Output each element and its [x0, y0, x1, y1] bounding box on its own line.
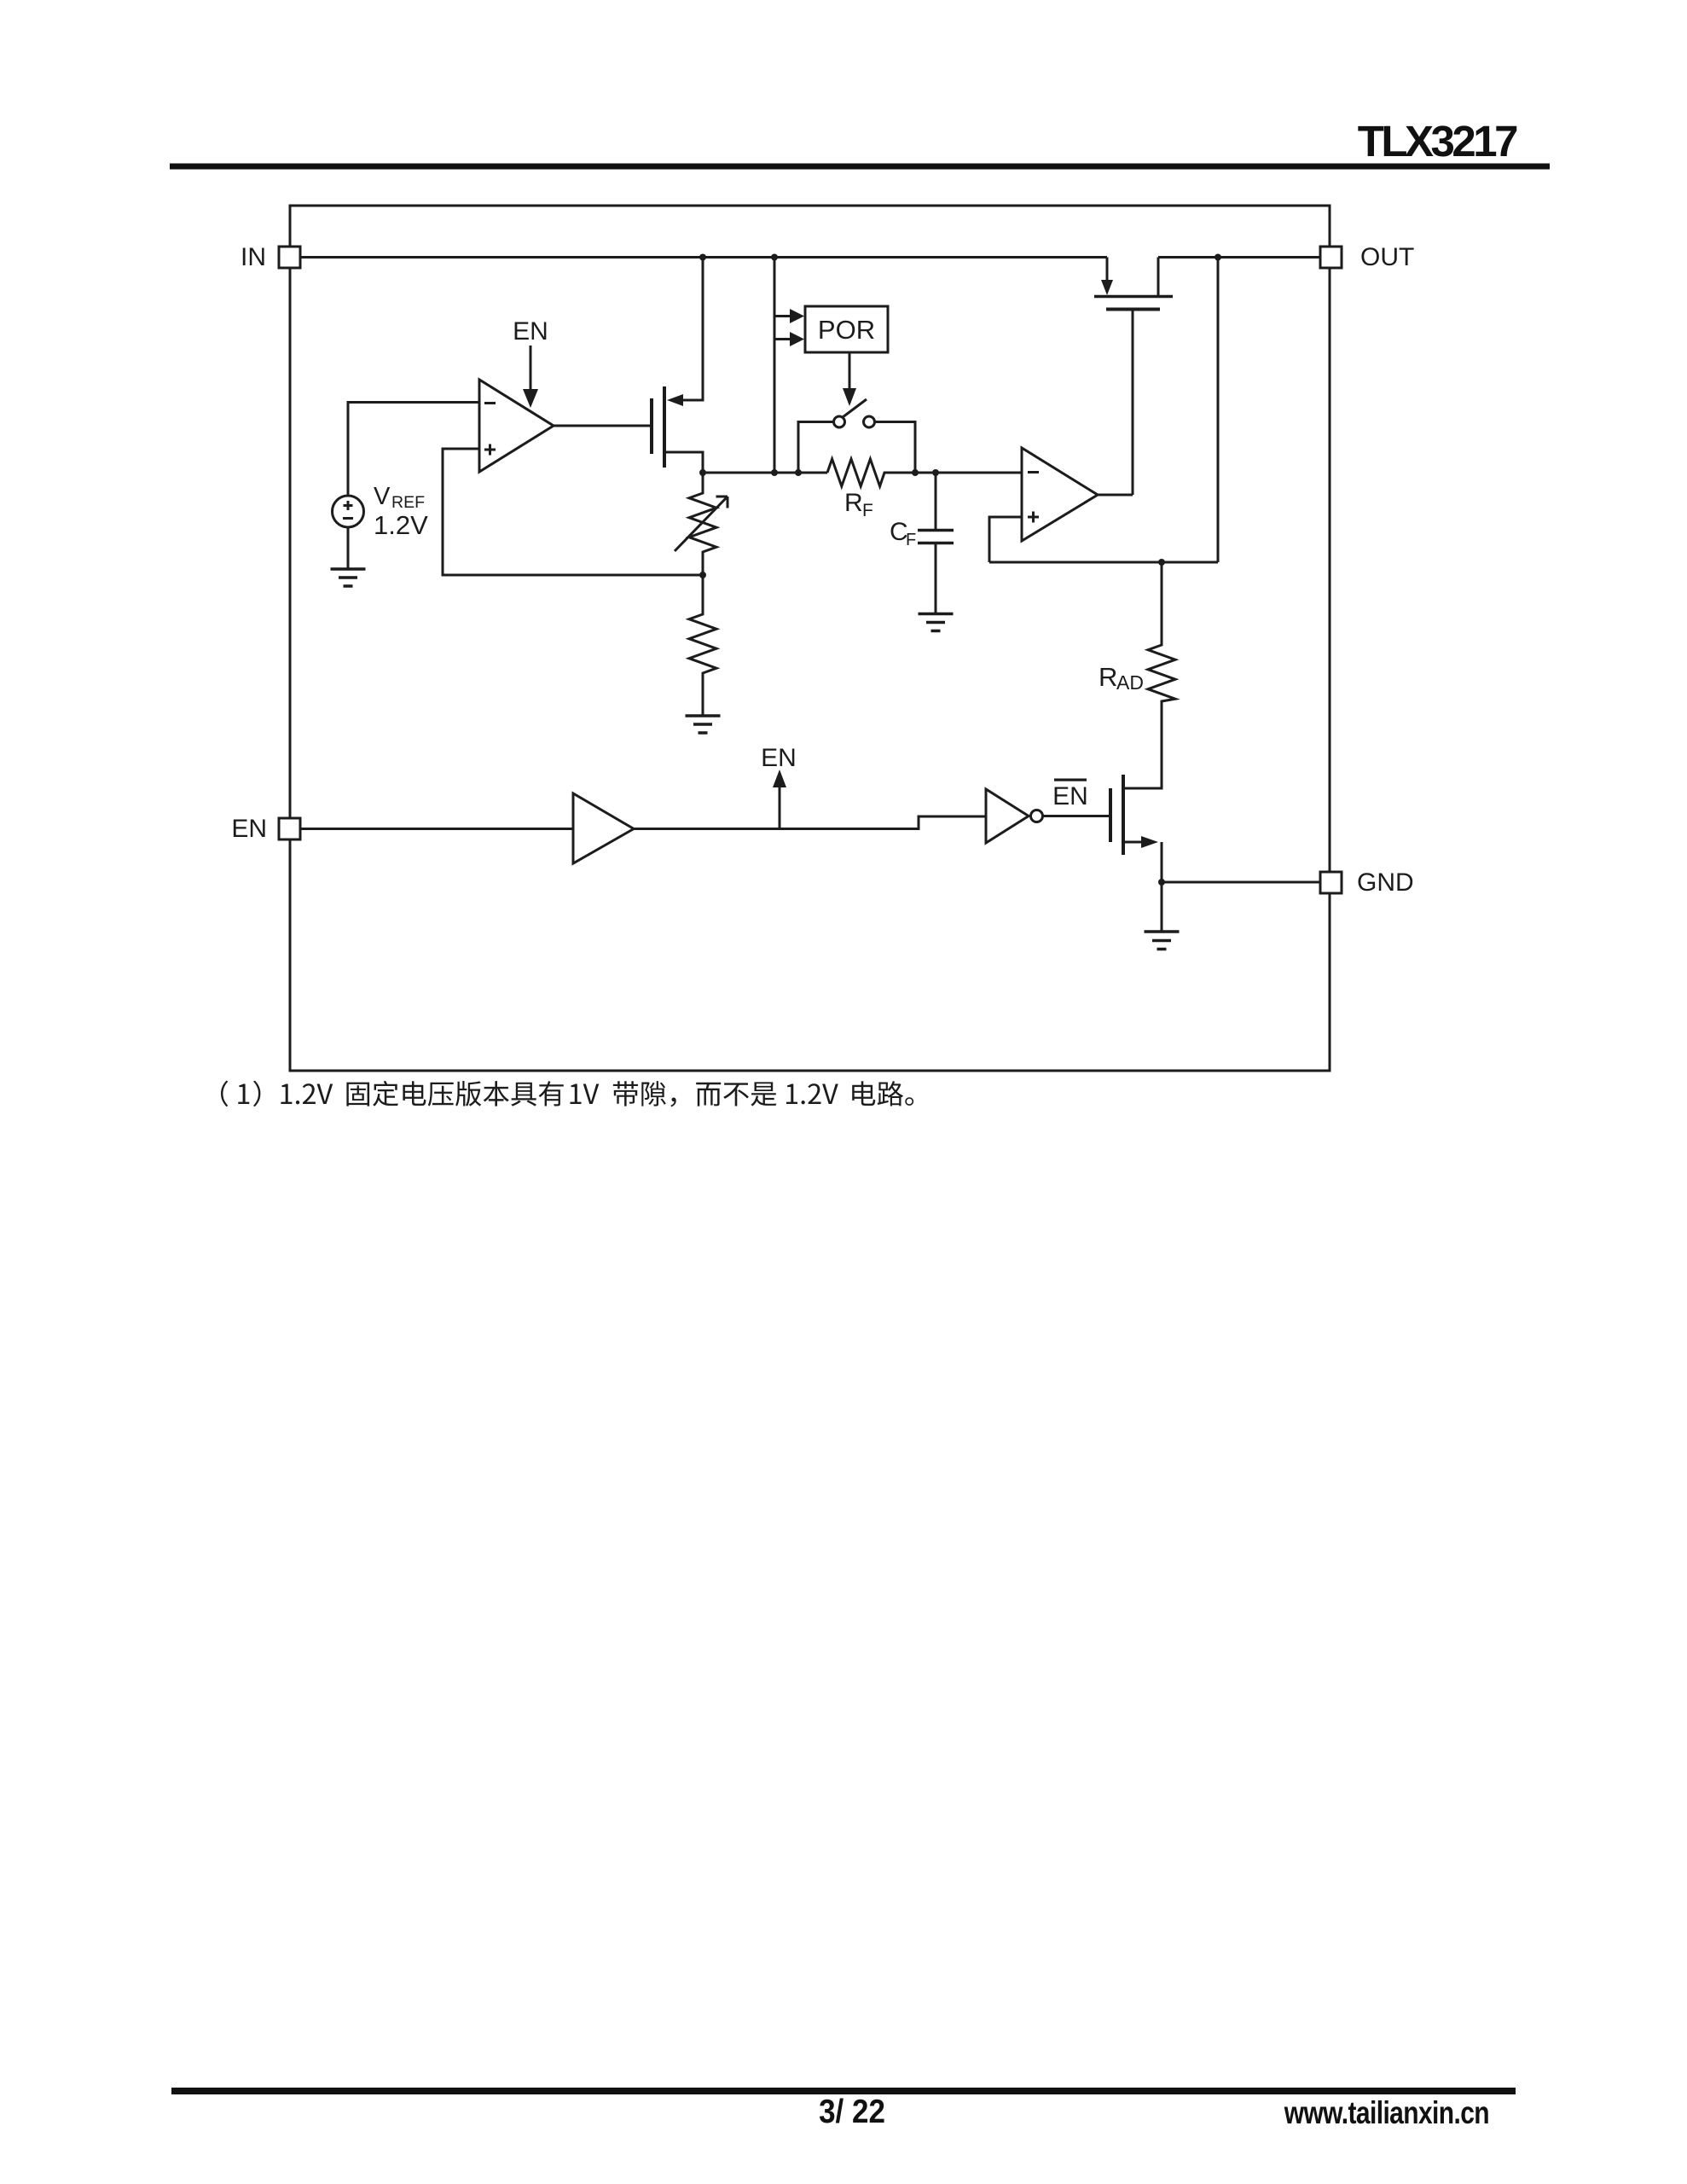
pad GND	[1320, 872, 1342, 893]
U1 minus sign	[484, 402, 496, 404]
svg-text:R: R	[1099, 662, 1117, 692]
label VREF	[374, 483, 425, 512]
label IN	[241, 243, 266, 271]
POR input arrow 2	[774, 332, 804, 346]
footer url www.tailianxin.cn	[1284, 2095, 1489, 2131]
EN arrow into U1	[523, 346, 538, 408]
label EN above buffer wire	[761, 744, 797, 772]
U2 plus sign	[1028, 512, 1039, 523]
wire feedback horizontal	[989, 561, 1218, 564]
resistor RF	[827, 459, 1022, 486]
label RF	[844, 489, 873, 520]
label EN-bar	[1052, 779, 1088, 811]
U2 minus sign	[1028, 471, 1039, 473]
transistor M0 channel bar	[1094, 295, 1173, 299]
svg-text:V: V	[374, 483, 391, 510]
svg-text:1.2V: 1.2V	[374, 510, 428, 540]
resistor RAD	[1148, 562, 1175, 788]
wire GND rail	[1162, 881, 1320, 884]
pad IN	[279, 247, 300, 268]
wire OUT feedback drop	[1217, 258, 1220, 563]
svg-text:R: R	[844, 489, 863, 517]
junction node RAD top	[1158, 559, 1165, 566]
transistor M1 source lead	[664, 452, 703, 473]
junction node feedback tap	[699, 572, 706, 578]
svg-text:F: F	[906, 531, 916, 549]
wire EN input	[300, 828, 573, 830]
U1 plus sign	[484, 444, 496, 456]
wire U1 plus input from feedback tap	[443, 449, 703, 575]
svg-text:EN: EN	[513, 317, 548, 346]
svg-text:F: F	[862, 501, 873, 520]
inverter U4	[986, 789, 1043, 843]
wire U1 output to M1 gate	[554, 425, 652, 427]
wire VREF to ground	[347, 527, 350, 569]
wire switch left leg	[798, 422, 834, 473]
svg-text:GND: GND	[1357, 868, 1414, 897]
wire mid rail	[703, 472, 827, 474]
wire POR feed	[774, 258, 776, 473]
transistor M0 gate bar	[1106, 308, 1160, 311]
transistor M2 source lead with arrow	[1123, 836, 1162, 882]
ground symbol M2	[1145, 932, 1180, 950]
label EN pad	[231, 815, 267, 843]
label 1.2V	[374, 510, 428, 540]
label EN above U1	[513, 317, 548, 346]
op-amp U1 error amplifier	[479, 380, 554, 472]
svg-text:TLX3217: TLX3217	[1358, 117, 1517, 166]
label GND	[1357, 868, 1414, 897]
junction node on IN rail at M1 drain	[699, 254, 706, 261]
buffer U3	[573, 793, 634, 863]
junction node OUT	[1215, 254, 1221, 261]
svg-text:POR: POR	[818, 315, 875, 345]
svg-text:AD: AD	[1116, 671, 1144, 694]
pad EN	[279, 818, 300, 839]
POR block	[805, 306, 888, 352]
switch S1	[834, 399, 875, 427]
wire U4 to M2 gate	[1043, 815, 1110, 817]
ground symbol CF	[919, 614, 954, 631]
label POR	[818, 315, 875, 345]
R1 adjustment arrow	[675, 497, 728, 551]
junction node CF top	[932, 469, 939, 476]
svg-text:IN: IN	[241, 243, 266, 271]
wire U2 plus input	[989, 517, 1022, 562]
junction node GND rail	[1158, 879, 1165, 886]
svg-text:EN: EN	[231, 815, 267, 843]
IC boundary box	[290, 206, 1330, 1071]
footer page number 3/22	[819, 2092, 885, 2129]
junction node RF right	[912, 469, 919, 476]
svg-text:OUT: OUT	[1360, 243, 1414, 271]
transistor M2 gate bar	[1109, 788, 1112, 842]
variable resistor R1	[689, 473, 716, 575]
junction node on IN rail at POR feed	[771, 254, 778, 261]
transistor M2 channel bar	[1122, 775, 1125, 855]
footnote (1) 1.2V fixed voltage note (Chinese)	[221, 1081, 913, 1107]
svg-text:EN: EN	[1052, 782, 1088, 810]
transistor M0 drain lead	[1157, 258, 1160, 297]
transistor M2 drain lead	[1123, 701, 1162, 788]
wire IN rail	[300, 256, 1107, 258]
wire OUT rail segment	[1158, 256, 1320, 258]
POR input arrow 1	[774, 309, 804, 323]
wire switch right leg	[875, 422, 916, 473]
svg-text:3/ 22: 3/ 22	[819, 2092, 885, 2129]
POR output arrow	[843, 352, 856, 406]
node EN branch arrow	[773, 770, 786, 829]
svg-text:REF: REF	[391, 493, 425, 512]
wire U1 minus input	[348, 403, 479, 497]
junction node M1 source	[699, 469, 706, 476]
wire U3 to inverter	[634, 816, 986, 829]
pad OUT	[1320, 247, 1342, 268]
source VREF 1.2V	[333, 496, 364, 527]
svg-text:www.tailianxin.cn: www.tailianxin.cn	[1284, 2095, 1489, 2131]
transistor M1 channel bar	[663, 386, 666, 468]
title TLX3217	[1358, 117, 1517, 166]
capacitor CF	[918, 473, 954, 613]
resistor R2	[689, 575, 716, 716]
op-amp U2 buffer	[1022, 448, 1098, 541]
wire M2 source to ground	[1161, 882, 1163, 932]
transistor M0 pass FET source lead	[1101, 258, 1113, 296]
label CF	[890, 518, 916, 549]
junction node switch left	[795, 469, 802, 476]
wire U2 output to M0 gate	[1098, 494, 1133, 497]
svg-text:EN: EN	[761, 744, 797, 772]
label RAD	[1099, 662, 1144, 694]
footer rule	[171, 2088, 1516, 2094]
transistor M1 drain lead with arrow	[667, 258, 703, 407]
transistor M1 gate bar	[650, 398, 653, 454]
wire M0 gate stem	[1132, 310, 1134, 496]
label OUT	[1360, 243, 1414, 271]
junction node POR feed bottom	[771, 469, 778, 476]
ground symbol VREF	[331, 569, 366, 586]
title rule	[170, 164, 1550, 170]
ground symbol R2	[686, 716, 721, 733]
